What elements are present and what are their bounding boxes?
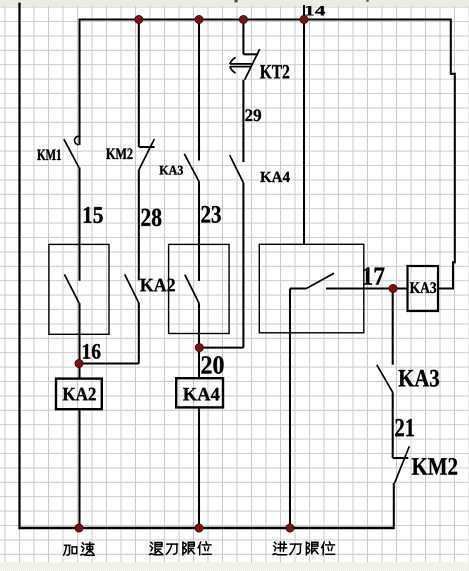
wire B below coil KA2	[78, 409, 80, 528]
label KM1	[37, 149, 61, 160]
wire E lower to node 20	[242, 183, 244, 348]
coil KA3 box	[408, 266, 439, 311]
wire branch F (node 14 feeder)	[303, 5, 305, 244]
label 20	[202, 356, 224, 374]
wire E middle	[242, 80, 244, 162]
label 17	[363, 267, 384, 284]
wire G lower to bottom bus	[393, 483, 395, 529]
label 进刀限位	[273, 542, 335, 555]
left power rail	[18, 3, 20, 529]
junction node 17	[389, 284, 397, 292]
contact KM1 arc marker	[75, 136, 79, 145]
contact KM2 right blade	[395, 446, 410, 483]
contact in box 1 blade	[64, 274, 79, 303]
wire C lower to node 16	[138, 303, 140, 364]
toolbar mark	[235, 0, 238, 2]
enclosure box 3	[259, 244, 364, 332]
coil KA2 box	[56, 379, 102, 410]
junction node on top bus at C	[135, 15, 143, 23]
bottom bus wire	[18, 527, 393, 529]
label KM2	[106, 148, 132, 159]
limit switch 17 pivot wire	[290, 287, 306, 289]
wire branch C upper (to KM2)	[138, 20, 140, 148]
limit switch 17 blade	[306, 273, 334, 288]
contact KA2 blade	[125, 274, 139, 303]
label KA3 contact	[159, 166, 183, 175]
wire D below coil KA4	[198, 407, 200, 528]
wire D middle	[198, 182, 200, 281]
label 16	[83, 344, 100, 359]
toolbar mark 2	[366, 0, 368, 2]
left rail stub above bar	[18, 3, 20, 6]
wire G middle	[392, 392, 394, 458]
wire branch D upper (to KA3)	[198, 20, 200, 161]
bottom bus node D	[195, 524, 203, 532]
contact KM1 blade	[64, 139, 79, 167]
coil text KA4	[183, 388, 219, 401]
wire branch B upper (to KM1)	[78, 20, 80, 145]
contact KA3 right blade	[377, 365, 393, 393]
junction node 14	[300, 15, 308, 23]
contact KT2 blade	[245, 49, 260, 80]
wire B lower to node 16	[78, 303, 80, 379]
contact KA3 blade	[184, 154, 199, 182]
coil text KA3	[410, 282, 436, 293]
wire D lower to node 20	[198, 303, 200, 378]
contact KM2 fixed tick	[139, 146, 155, 148]
junction node on top bus at E	[239, 15, 247, 23]
wire branch E upper (to KT2)	[242, 20, 244, 55]
limit switch 17 left drop wire	[289, 289, 291, 529]
label 28	[141, 209, 161, 227]
wire from coil KA3 to top bus	[438, 19, 455, 289]
junction node 20	[195, 344, 203, 352]
bottom bus node switch17	[286, 524, 294, 532]
wire C middle	[138, 170, 140, 280]
label KT2	[260, 65, 289, 78]
enclosure box 2	[169, 244, 230, 333]
label 15	[84, 207, 103, 223]
label KA4 contact	[260, 172, 289, 182]
label 14	[306, 6, 325, 16]
coil text KA2	[63, 388, 96, 401]
junction node on top bus at D	[195, 15, 203, 23]
contact in box 2 blade	[185, 275, 199, 304]
enclosure box 1	[49, 244, 109, 334]
top bus wire (line 14)	[79, 19, 451, 21]
label KM2 right	[412, 458, 457, 475]
label 21	[395, 419, 414, 436]
top toolbar strip	[0, 0, 469, 6]
contact KT2 fixed tick	[243, 53, 258, 55]
node 16 link wire	[79, 362, 139, 364]
KT2 delay arrow	[230, 57, 252, 73]
label 加速	[64, 542, 95, 555]
label KA3 right	[399, 370, 439, 387]
label 退刀限位	[150, 542, 212, 555]
label 23	[201, 206, 220, 223]
wire branch G upper (node 17 down)	[392, 289, 394, 365]
coil KA4 box	[176, 378, 223, 407]
contact KA4 blade	[230, 155, 244, 183]
limit switch 17 right wire	[326, 287, 408, 289]
bottom status strip	[0, 562, 469, 571]
node 20 link wire	[199, 347, 243, 349]
contact KM2 right fixed tick	[393, 457, 409, 459]
bottom bus node B	[75, 524, 83, 532]
wire B middle	[78, 168, 80, 281]
label 29	[245, 109, 261, 121]
label KA2 contact	[140, 279, 175, 292]
junction node 16	[75, 359, 83, 367]
contact KM2 blade	[139, 139, 155, 170]
